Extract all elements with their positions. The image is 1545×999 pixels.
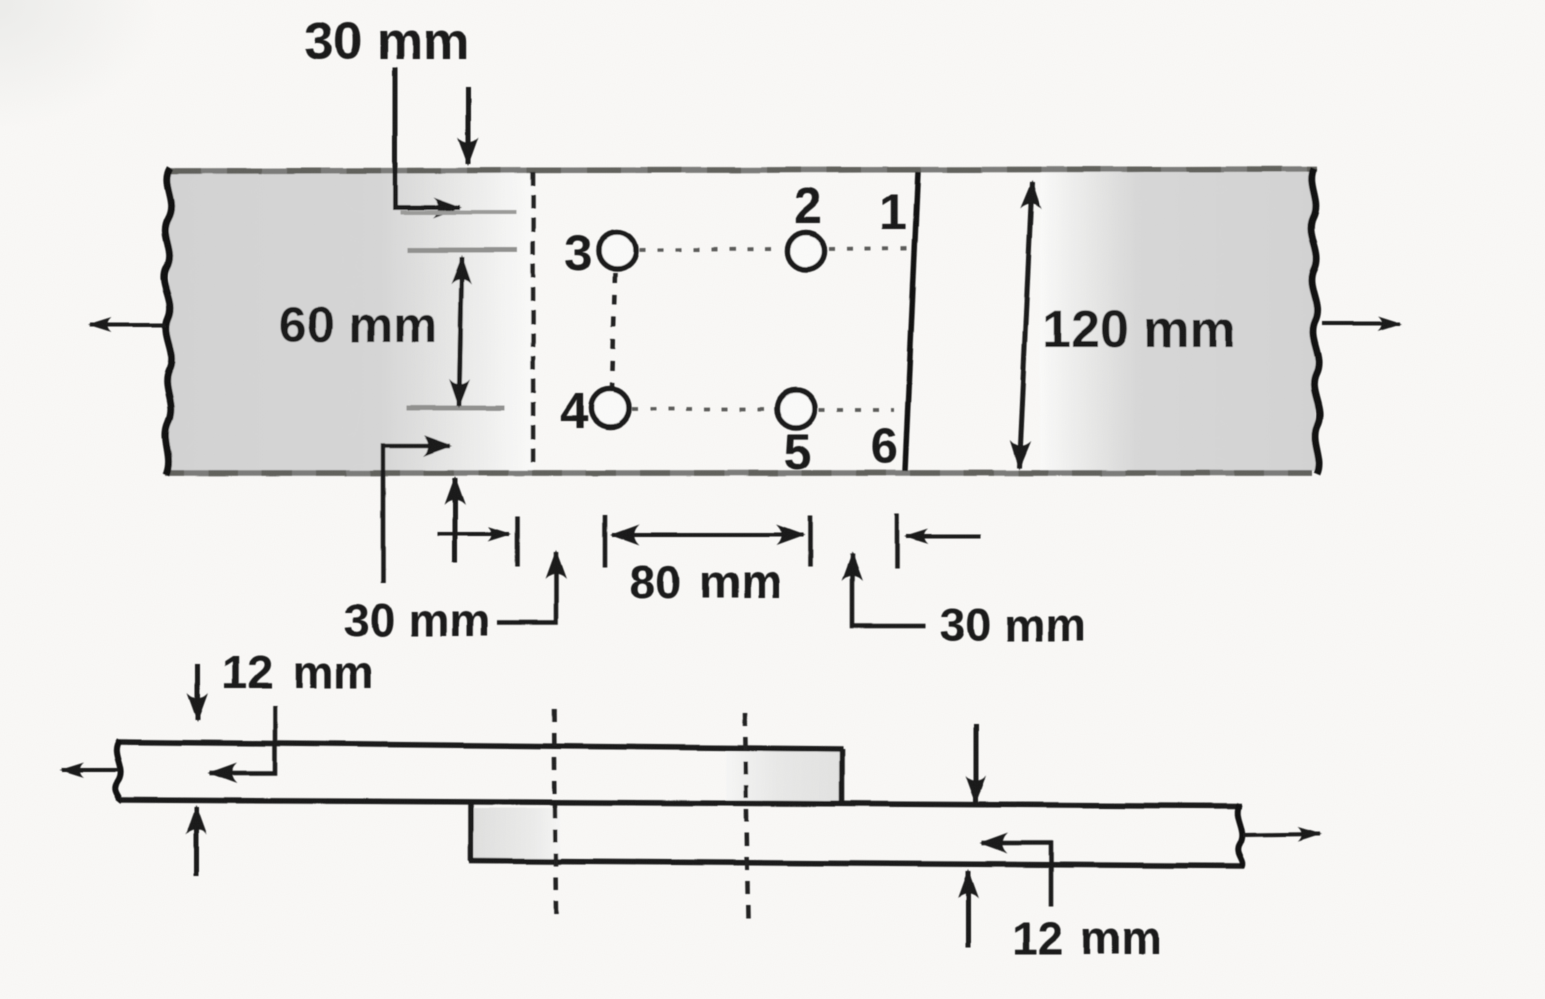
leader 12 mm lower (981, 843, 1051, 906)
leader 30 mm top (395, 67, 460, 208)
row 2 center line (dashed) (632, 407, 773, 411)
leader elbow lower-left (497, 552, 556, 623)
row 2 center line right segment (819, 408, 894, 412)
plate top edge (167, 169, 1317, 171)
leader 30 mm lower-left (383, 446, 450, 583)
bolt center line right (dashed) (745, 713, 748, 918)
left force arrow (90, 323, 166, 327)
small dimension line lower-left (437, 532, 510, 536)
left break (wavy) edge (164, 168, 172, 475)
extension line row 2 (406, 406, 505, 411)
column center line between holes 3 and 4 (dashed) (612, 273, 615, 390)
row 1 center line right segment (829, 248, 908, 249)
hidden plate edge (dashed line) (531, 172, 536, 471)
upper plate right end shaded (726, 751, 840, 804)
top plate left shaded region (167, 172, 533, 471)
edge arrow 30 mm top (down) (466, 87, 471, 164)
dimension 60 mm line (459, 257, 462, 406)
lower plate bottom edge (469, 861, 1244, 866)
lower plate right wavy end (1238, 804, 1243, 867)
small dimension tick lower-left (516, 516, 521, 566)
right force arrow (1322, 322, 1400, 326)
dimension 80 mm tick left (603, 515, 608, 567)
bolt center line left (dashed) (554, 709, 556, 917)
bolt hole 2 (788, 233, 825, 270)
top plate end (solid line) (905, 172, 918, 471)
extension mark under top leader (400, 211, 516, 215)
lower plate left end line (468, 804, 474, 861)
dimension 80 mm tick right (808, 515, 813, 567)
thickness arrow upper (up) (194, 807, 199, 876)
bolt hole 4 (591, 389, 629, 427)
leader elbow lower-right (852, 554, 926, 626)
lower plate left end shaded (474, 808, 560, 860)
dimension arrow lower-right (906, 534, 981, 538)
thickness arrow middle (down) (974, 723, 979, 803)
dimension tick lower-right (895, 514, 900, 568)
leader 12 mm upper (210, 706, 275, 773)
edge arrow lower-left (up) (453, 478, 458, 563)
row 1 center line (dashed) (639, 249, 782, 250)
plate bottom edge (165, 470, 1312, 476)
thickness arrow upper (down) (196, 664, 201, 720)
upper plate top edge (117, 742, 843, 749)
plates middle contact line (120, 800, 1242, 806)
bolt hole 5 (777, 390, 815, 428)
left force arrow (side view) (62, 768, 118, 772)
upper plate left wavy end (115, 740, 120, 802)
thickness arrow lower (up) (966, 871, 971, 948)
scan smudge top-left (0, 0, 1, 1)
dimension 120 mm line (1019, 182, 1032, 468)
upper plate right end line (839, 749, 845, 806)
bottom plate right shaded region (top view) (1040, 172, 1316, 471)
extension line row 1 (408, 248, 517, 253)
bolt hole 3 (599, 232, 636, 269)
dimension 80 mm line (612, 533, 803, 537)
right break (wavy) edge (1311, 168, 1320, 474)
right force arrow (side view) (1243, 834, 1320, 835)
